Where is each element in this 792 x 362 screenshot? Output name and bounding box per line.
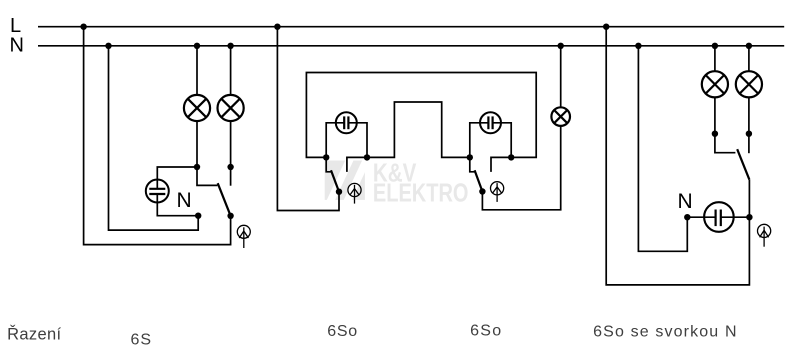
node N7 — [746, 43, 752, 49]
node N6 — [712, 43, 718, 49]
node S3 pivot — [479, 188, 485, 194]
svg-text:Řazení: Řazení — [7, 325, 61, 344]
section 1: wire L drop — [84, 27, 231, 245]
section 3: glow lamp H4 left lead wire — [687, 216, 715, 218]
node S1 contact A — [194, 164, 200, 170]
node S3 contact A — [467, 154, 473, 160]
svg-text:6So: 6So — [327, 323, 357, 340]
svg-text:N: N — [678, 190, 693, 213]
section 2: glow lamp H2 left lead wire — [326, 123, 344, 158]
section 3: glow lamp H4 — [704, 202, 734, 232]
section 2: traveler bridge wire — [367, 102, 470, 157]
svg-text:6So se svorkou N: 6So se svorkou N — [593, 324, 736, 341]
node L2 — [274, 24, 280, 30]
section 3: glow lamp H4 right lead wire — [721, 216, 749, 218]
section 3: switch S4 blade — [737, 149, 749, 180]
section 1: switch fixed contact from E1 — [197, 167, 217, 185]
section 2: glow lamp H2 right lead wire — [348, 123, 367, 158]
node E4 bottom — [712, 131, 718, 137]
section 3: switch S4 fixed contact B — [748, 134, 750, 154]
section 2: actuator arrow right — [491, 182, 504, 202]
svg-text:N: N — [10, 35, 24, 57]
section 2: lamp E3 top wire — [560, 46, 562, 108]
node S2 contact A — [323, 154, 329, 160]
svg-text:ELEKTRO: ELEKTRO — [373, 178, 469, 208]
node S2 contact B — [364, 154, 370, 160]
section 1: lamp E1 top wire — [196, 46, 198, 95]
section 1: lamp E2 bottom wire — [230, 121, 232, 167]
section 3: switch S4 fixed contact A — [715, 134, 736, 153]
section 2: traveler loop wire — [306, 73, 536, 158]
node L3 — [603, 24, 609, 30]
section 1: lamp E1 bottom wire — [196, 121, 198, 167]
section 2: switch S2 fixed contact B — [347, 157, 367, 172]
section 3: lamp E4 top wire — [714, 46, 716, 71]
node glow H4 right — [746, 214, 752, 220]
section 2: switch S3 fixed contact A — [470, 157, 475, 171]
node S3 contact B — [508, 154, 514, 160]
section 1: glow lamp bottom lead wire — [157, 194, 198, 216]
section 2: switch S2 blade — [331, 170, 339, 191]
section 2: switch S3 blade — [475, 170, 483, 191]
svg-text:6S: 6S — [131, 331, 152, 348]
node S1 pivot — [227, 213, 233, 219]
section 2: switch S3 fixed contact B — [491, 157, 511, 172]
section 3: lamp E5 top wire — [748, 46, 750, 71]
section 1: glow lamp top lead wire — [157, 167, 197, 189]
section 2: glow lamp H2 — [336, 112, 357, 133]
section 2: switch S2 fixed contact A — [326, 157, 331, 171]
node N3 — [227, 43, 233, 49]
section 1: glow lamp H1 — [146, 180, 169, 203]
L bus wire — [38, 26, 784, 28]
section 2: wire switch S3 common to lamp E3 — [482, 126, 560, 210]
section 2: lamp E3 — [551, 107, 570, 126]
section 2: glow lamp H3 — [480, 112, 501, 133]
svg-text:6So: 6So — [470, 323, 501, 340]
node N2 — [194, 43, 200, 49]
section 3: actuator arrow — [758, 224, 771, 246]
node glow H1 bottom — [195, 213, 201, 219]
section 1: switch fixed contact from E2 — [230, 167, 232, 186]
node N1 — [105, 43, 111, 49]
node L1 — [80, 24, 86, 30]
N bus wire — [38, 45, 784, 47]
section 1: switch S1 blade — [218, 183, 231, 216]
section 2: glow lamp H3 left lead wire — [470, 123, 489, 158]
section 1: actuator arrow — [237, 225, 250, 248]
section 2: actuator arrow left — [348, 183, 361, 203]
section 3: wire L drop — [606, 27, 749, 285]
section 2: wire L drop to switch S2 common — [277, 27, 339, 211]
node N4 — [558, 43, 564, 49]
node E5 bottom — [746, 131, 752, 137]
node S1 contact B — [227, 164, 233, 170]
section 3: lamp E4 — [702, 71, 728, 97]
section 3: wire N drop — [638, 46, 687, 252]
watermark logo K&V — [325, 159, 366, 204]
section 3: lamp E4 bottom wire — [714, 97, 716, 133]
section 1: lamp E2 top wire — [230, 46, 232, 95]
node S2 pivot — [336, 189, 342, 195]
section 3: lamp E5 — [736, 71, 762, 97]
section 1: lamp E2 — [218, 95, 244, 121]
svg-text:N: N — [177, 189, 192, 212]
section 2: glow lamp H3 right lead wire — [493, 123, 512, 158]
section 1: lamp E1 — [184, 95, 210, 121]
node N5 — [635, 43, 641, 49]
section 1: wire N drop — [109, 46, 199, 230]
section 3: lamp E5 bottom wire — [748, 97, 750, 133]
node glow H4 left — [684, 214, 690, 220]
